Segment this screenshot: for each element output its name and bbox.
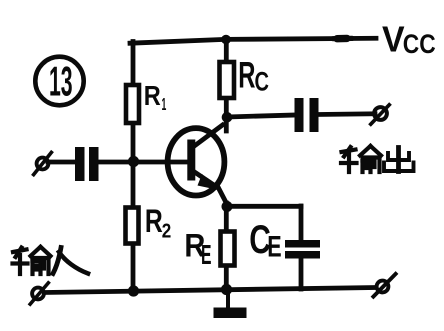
- svg-text:V: V: [382, 19, 405, 60]
- svg-text:1: 1: [162, 94, 167, 114]
- svg-text:13: 13: [49, 58, 73, 105]
- svg-text:E: E: [267, 231, 281, 264]
- svg-text:CC: CC: [403, 29, 436, 59]
- svg-text:E: E: [201, 239, 212, 270]
- svg-text:C: C: [255, 66, 270, 96]
- svg-text:R: R: [145, 203, 163, 239]
- svg-text:R: R: [144, 80, 161, 111]
- svg-text:2: 2: [162, 219, 172, 242]
- svg-text:R: R: [238, 54, 255, 96]
